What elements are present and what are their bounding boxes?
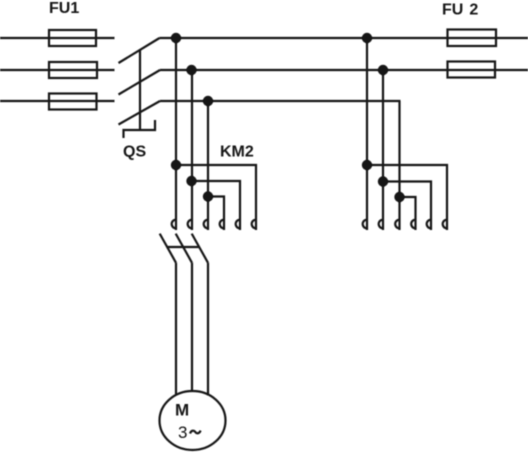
junction dot right contactor elbow 3 bbox=[394, 192, 404, 202]
right contactor fixed contact arc 2 bbox=[379, 220, 383, 229]
wire L2 left segment bbox=[0, 69, 115, 71]
svg-text:FU1: FU1 bbox=[49, 0, 79, 17]
contactor KM2 fixed contact arc 1 bbox=[172, 220, 176, 229]
fuse FU1 pole2 bbox=[49, 62, 97, 78]
switch QS linkage bar bbox=[139, 50, 141, 130]
wire motor lead V bbox=[191, 263, 193, 392]
contactor KM2 fixed contact arc 6 bbox=[252, 220, 256, 229]
right contactor fixed contact arc 4 bbox=[411, 220, 415, 229]
switch QS blade pole1 bbox=[119, 38, 160, 63]
junction dot KM2 elbow 2 bbox=[186, 176, 196, 186]
label tilde of 3~ bbox=[190, 431, 201, 434]
wire motor lead U bbox=[175, 263, 177, 396]
svg-text:QS: QS bbox=[123, 144, 146, 161]
wire phase1 drop to right contactor terminal 1 bbox=[366, 38, 368, 230]
right contactor fixed contact arc 1 bbox=[363, 220, 367, 229]
wire phase2 drop to KM2 terminal 2 bbox=[191, 70, 193, 230]
junction dot line1 x367 bbox=[362, 33, 372, 43]
contactor KM2 fixed contact arc 5 bbox=[236, 220, 240, 229]
contactor KM2 moving blade 2 bbox=[176, 234, 192, 263]
fuse FU1 pole3 bbox=[49, 94, 97, 110]
wire phase3 drop to right contactor terminal 3 bbox=[398, 101, 400, 230]
wire L1 right segment bbox=[160, 37, 528, 39]
junction dot line2 x383 bbox=[378, 65, 388, 75]
contactor KM2 fixed contact arc 2 bbox=[188, 220, 192, 229]
contactor KM2 moving blade 3 bbox=[192, 234, 208, 263]
right contactor fixed contact arc 3 bbox=[395, 220, 399, 229]
wire L1 left segment bbox=[0, 37, 115, 39]
contactor KM2 fixed contact arc 4 bbox=[220, 220, 224, 229]
wire L2 right segment bbox=[160, 69, 528, 71]
junction dot KM2 elbow 3 bbox=[203, 191, 213, 201]
fuse FU2 pole1 bbox=[448, 30, 497, 47]
contactor KM2 fixed contact arc 3 bbox=[204, 220, 208, 229]
svg-text:KM2: KM2 bbox=[220, 144, 254, 161]
junction dot line2 x192 bbox=[186, 65, 196, 75]
wire elbow phase3 to KM2 terminal 4 bbox=[208, 197, 224, 231]
svg-text:M: M bbox=[175, 401, 189, 420]
wire motor lead W bbox=[207, 263, 209, 396]
junction dot line1 x176 bbox=[171, 33, 181, 43]
wire elbow phase3 to right contactor terminal 4 bbox=[400, 197, 416, 230]
wire elbow phase1 to right contactor terminal 6 bbox=[367, 165, 447, 230]
wire phase2 drop to right contactor terminal 2 bbox=[382, 70, 384, 230]
right contactor fixed contact arc 6 bbox=[443, 220, 447, 229]
wire phase1 drop to KM2 terminal 1 bbox=[175, 38, 177, 230]
fuse FU1 pole1 bbox=[49, 30, 96, 46]
contactor KM2 blade linkage bar bbox=[167, 246, 199, 248]
switch QS blade pole2 bbox=[119, 70, 161, 95]
switch QS blade pole3 bbox=[119, 101, 161, 125]
contactor KM2 moving blade 1 bbox=[160, 234, 176, 263]
junction dot KM2 elbow 1 bbox=[171, 160, 181, 170]
junction dot right contactor elbow 2 bbox=[378, 176, 388, 186]
wire L3 left segment bbox=[0, 100, 115, 102]
wire L3 right segment bbox=[160, 100, 401, 102]
wire elbow phase2 to right contactor terminal 5 bbox=[383, 182, 431, 231]
junction dot right contactor elbow 1 bbox=[362, 160, 372, 170]
junction dot line3 x208 bbox=[203, 96, 213, 106]
motor M circle bbox=[160, 391, 226, 450]
wire phase3 drop to KM2 terminal 3 bbox=[207, 101, 209, 230]
fuse FU2 pole2 bbox=[448, 62, 496, 78]
switch QS handle bbox=[124, 120, 156, 138]
right contactor fixed contact arc 5 bbox=[427, 220, 431, 229]
svg-text:3: 3 bbox=[178, 423, 187, 442]
svg-text:FU2: FU2 bbox=[442, 2, 478, 19]
wire elbow phase2 to KM2 terminal 5 bbox=[192, 181, 240, 230]
wire elbow phase1 to KM2 terminal 6 bbox=[176, 165, 256, 230]
